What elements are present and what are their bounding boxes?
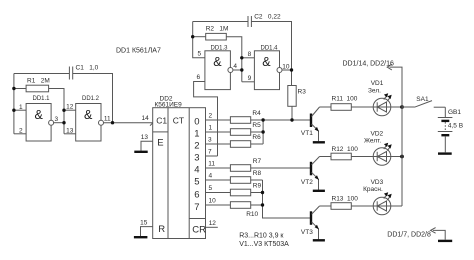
wire R13 to VD3 — [351, 205, 373, 207]
wire pin 13 — [64, 127, 76, 134]
svg-text:5: 5 — [194, 177, 199, 188]
svg-text:VD1: VD1 — [371, 80, 384, 87]
op-amp DD1.4 — [254, 45, 282, 89]
node bus R4 — [261, 118, 264, 121]
resistor R11 — [331, 95, 358, 110]
wire output 4 — [233, 63, 242, 70]
wire node A vertical — [193, 22, 205, 58]
svg-text:R: R — [158, 224, 165, 235]
svg-text:6: 6 — [194, 189, 199, 200]
svg-text:R9: R9 — [253, 182, 262, 189]
wire output 11 to counter pin 14 — [104, 116, 154, 123]
node out3 junction — [62, 121, 65, 124]
wire R1 left — [14, 88, 26, 90]
LED VD2 yellow — [364, 130, 392, 165]
wire VD3 to bus corner — [391, 205, 402, 207]
wire output 2 pin 3 — [206, 137, 231, 145]
transistor VT1 — [301, 107, 320, 141]
svg-text:10: 10 — [209, 198, 217, 205]
resistor R1 — [26, 78, 50, 92]
node pin1 junction — [12, 109, 15, 112]
svg-text:&: & — [35, 108, 44, 122]
wire R2 left — [193, 36, 206, 38]
wire pin 9 — [242, 75, 255, 82]
svg-text:R5: R5 — [252, 122, 261, 129]
svg-text:R3: R3 — [298, 88, 307, 95]
ground arrow DD1/7 DD2/8 — [387, 228, 452, 241]
svg-text:4,5 В: 4,5 В — [448, 122, 463, 129]
wire output 5 pin 4 — [206, 173, 231, 181]
LED VD3 red — [363, 179, 392, 215]
svg-text:15: 15 — [140, 219, 148, 226]
svg-text:C1: C1 — [156, 116, 167, 126]
svg-text:V1...V3 КТ503А: V1...V3 КТ503А — [239, 241, 289, 248]
svg-text:6: 6 — [197, 74, 201, 81]
svg-text:Зел.: Зел. — [368, 88, 381, 95]
svg-text:11: 11 — [208, 161, 215, 168]
svg-text:4: 4 — [209, 173, 213, 180]
ground VT3 emitter — [313, 239, 325, 241]
battery GB1 — [438, 107, 463, 152]
node C1 feedback junction — [111, 121, 114, 124]
svg-text:5: 5 — [198, 50, 202, 57]
LED VD1 green — [368, 80, 392, 116]
wire output 3 pin 7 — [206, 149, 218, 157]
svg-text:SA1: SA1 — [416, 96, 429, 103]
node pin12 junction — [62, 109, 65, 112]
wire VD1 to bus — [391, 106, 402, 108]
svg-text:0: 0 — [194, 117, 199, 128]
svg-text:&: & — [84, 108, 93, 122]
resistor R9 — [230, 182, 261, 196]
wire VD2 to bus — [391, 156, 402, 158]
svg-text:1: 1 — [209, 125, 213, 132]
svg-text:2: 2 — [19, 127, 23, 134]
svg-text:12: 12 — [66, 104, 74, 111]
svg-text:R6: R6 — [252, 134, 261, 141]
resistor R13 — [331, 195, 358, 209]
op-amp DD1.1 — [26, 96, 53, 141]
svg-text:R13 100: R13 100 — [332, 195, 359, 202]
wire pin 2 — [14, 127, 26, 134]
svg-text:2: 2 — [194, 141, 199, 152]
wire R1 right — [49, 89, 64, 134]
node VD2 bus junction — [400, 155, 404, 159]
svg-text:11: 11 — [104, 116, 111, 123]
svg-text:R12 100: R12 100 — [332, 146, 359, 153]
wire VT1 collector to R11 — [320, 106, 332, 108]
node out4 junction — [240, 68, 243, 71]
svg-text:Красн.: Красн. — [363, 186, 383, 193]
svg-text:7: 7 — [194, 202, 199, 213]
wire R5 right — [251, 131, 263, 133]
svg-text:7: 7 — [208, 149, 212, 156]
wire C1 right to DD1.2 output — [73, 74, 113, 123]
wire VT2 collector to R12 — [320, 156, 332, 158]
label pin 5 — [198, 50, 202, 57]
wire R6 right — [251, 143, 263, 145]
svg-text:13: 13 — [141, 134, 149, 141]
svg-text:DD1.2: DD1.2 — [82, 96, 100, 102]
wire VT3 collector to R13 — [320, 205, 332, 207]
wire pin 8 — [242, 51, 255, 58]
node R3 base junction — [290, 118, 293, 121]
wire R11 to VD1 — [351, 106, 373, 108]
wire CR pin 12 stub — [206, 220, 218, 228]
svg-text:9: 9 — [248, 75, 252, 82]
wire red bus to VT3 base — [263, 180, 311, 218]
svg-text:14: 14 — [142, 115, 150, 122]
wire output 6 pin 5 — [206, 185, 231, 193]
transistor VT2 — [301, 157, 320, 190]
svg-text:1: 1 — [194, 129, 199, 140]
ground VT1 emitter — [313, 141, 325, 143]
svg-text:CT: CT — [173, 116, 184, 126]
resistor R5 — [230, 122, 261, 136]
counter DD2 box — [153, 108, 206, 239]
svg-text:3: 3 — [208, 137, 212, 144]
svg-text:DD1.1: DD1.1 — [33, 96, 51, 102]
svg-text:VD3: VD3 — [371, 179, 384, 186]
label R3...R10 value — [239, 232, 284, 239]
ground VT2 emitter — [313, 190, 325, 192]
node bus R10 — [261, 203, 264, 206]
svg-text:R1 2M: R1 2M — [27, 78, 50, 85]
node pin8 junction — [240, 56, 243, 59]
wire pin 1 — [14, 104, 26, 111]
svg-text:DD1/14, DD2/16: DD1/14, DD2/16 — [343, 60, 394, 67]
node VD1 bus junction — [400, 105, 404, 109]
svg-text:3: 3 — [55, 116, 59, 123]
wire green bus — [262, 120, 264, 144]
resistor R6 — [230, 134, 261, 148]
capacitor C2 — [248, 14, 281, 28]
wire C2 right down to output 10 — [251, 22, 291, 86]
ground R input — [134, 236, 148, 238]
svg-text:R11 100: R11 100 — [332, 95, 358, 102]
svg-text:4: 4 — [194, 165, 199, 176]
node R2 left junction — [191, 35, 194, 38]
wire R3 bottom to VT1 base — [291, 106, 293, 120]
wire pin7 to DD1.3 pin 6 — [194, 82, 218, 157]
node bus R5 — [261, 130, 264, 133]
svg-text:R3...R10 3,9 к: R3...R10 3,9 к — [239, 232, 284, 239]
svg-text:DD1/7, DD2/8: DD1/7, DD2/8 — [387, 232, 431, 239]
svg-text:2: 2 — [209, 113, 213, 120]
label V1...V3 type — [239, 241, 289, 248]
wire R7 to VT2 base — [251, 167, 311, 169]
svg-text:12: 12 — [209, 220, 217, 227]
svg-text:&: & — [262, 55, 271, 69]
svg-text:13: 13 — [66, 127, 74, 134]
wire output 1 pin 1 — [206, 125, 231, 133]
wire top C1 left — [14, 73, 69, 75]
svg-text:&: & — [213, 55, 222, 69]
svg-text:DD1 К561ЛА7: DD1 К561ЛА7 — [116, 48, 161, 55]
svg-text:VT2: VT2 — [301, 179, 313, 186]
resistor R8 — [230, 170, 261, 184]
svg-text:R2 1M: R2 1M — [206, 26, 229, 33]
svg-text:R4: R4 — [252, 110, 261, 117]
capacitor C1 — [69, 65, 98, 80]
svg-text:5: 5 — [209, 185, 213, 192]
resistor R2 — [206, 26, 229, 41]
wire output 0 pin 2 — [206, 113, 231, 121]
svg-text:10: 10 — [282, 63, 290, 70]
svg-text:R7: R7 — [253, 158, 262, 165]
ground battery — [438, 152, 452, 154]
svg-text:R10: R10 — [246, 211, 258, 218]
svg-text:1: 1 — [19, 104, 23, 111]
label pin 6 — [197, 74, 201, 81]
switch SA1 — [402, 96, 445, 107]
svg-text:4: 4 — [233, 63, 237, 70]
wire output 4 pin 11 — [206, 161, 231, 169]
svg-text:VD2: VD2 — [371, 130, 384, 137]
power arrow DD1/14 DD2/16 — [343, 60, 394, 70]
wire R10 right — [251, 204, 263, 206]
svg-text:GB1: GB1 — [448, 109, 461, 116]
svg-text:3: 3 — [194, 153, 199, 164]
wire R9 right — [251, 192, 263, 194]
wire output 3 — [54, 116, 64, 123]
op-amp DD1.2 — [76, 96, 104, 141]
wire output 7 pin 10 — [206, 198, 231, 206]
resistor R7 — [230, 158, 261, 172]
wire R2 right — [226, 37, 242, 82]
svg-text:VT3: VT3 — [301, 229, 313, 236]
wire R4 to VT1 base — [251, 119, 311, 121]
label pin 14 — [142, 115, 150, 122]
pin 14 dynamic input slash — [150, 120, 156, 126]
svg-text:8: 8 — [248, 51, 252, 58]
wire output 10 — [282, 63, 292, 70]
resistor R10 — [230, 202, 258, 218]
svg-text:E: E — [157, 137, 163, 148]
resistor R12 — [331, 146, 358, 160]
wire pin 15 R input — [140, 219, 153, 236]
wire pin 13 E input — [141, 134, 153, 151]
wire R12 to VD2 — [351, 156, 373, 158]
wire supply bus vertical — [390, 67, 403, 206]
svg-text:R8: R8 — [253, 170, 262, 177]
wire left vertical node — [13, 74, 15, 134]
transistor VT3 — [301, 206, 320, 239]
svg-text:CR: CR — [192, 225, 206, 236]
node out10 junction — [290, 68, 293, 71]
svg-text:VT1: VT1 — [301, 130, 313, 137]
node bus R9 — [261, 191, 264, 194]
wire R8 right — [251, 179, 263, 181]
wire pin 12 — [64, 104, 76, 111]
svg-text:C1 1,0: C1 1,0 — [76, 65, 99, 72]
resistor R4 — [230, 110, 261, 123]
label DD1 K561LA7 — [116, 48, 161, 55]
svg-text:Желт.: Желт. — [364, 137, 381, 144]
svg-text:C2 0,22: C2 0,22 — [254, 14, 281, 21]
ground E input — [134, 151, 147, 153]
node R1 left junction — [12, 87, 15, 90]
op-amp DD1.3 — [205, 45, 233, 89]
wire top C2 left — [193, 21, 248, 23]
label DD2 K561IE9 — [155, 96, 183, 109]
resistor R3 — [288, 86, 306, 107]
